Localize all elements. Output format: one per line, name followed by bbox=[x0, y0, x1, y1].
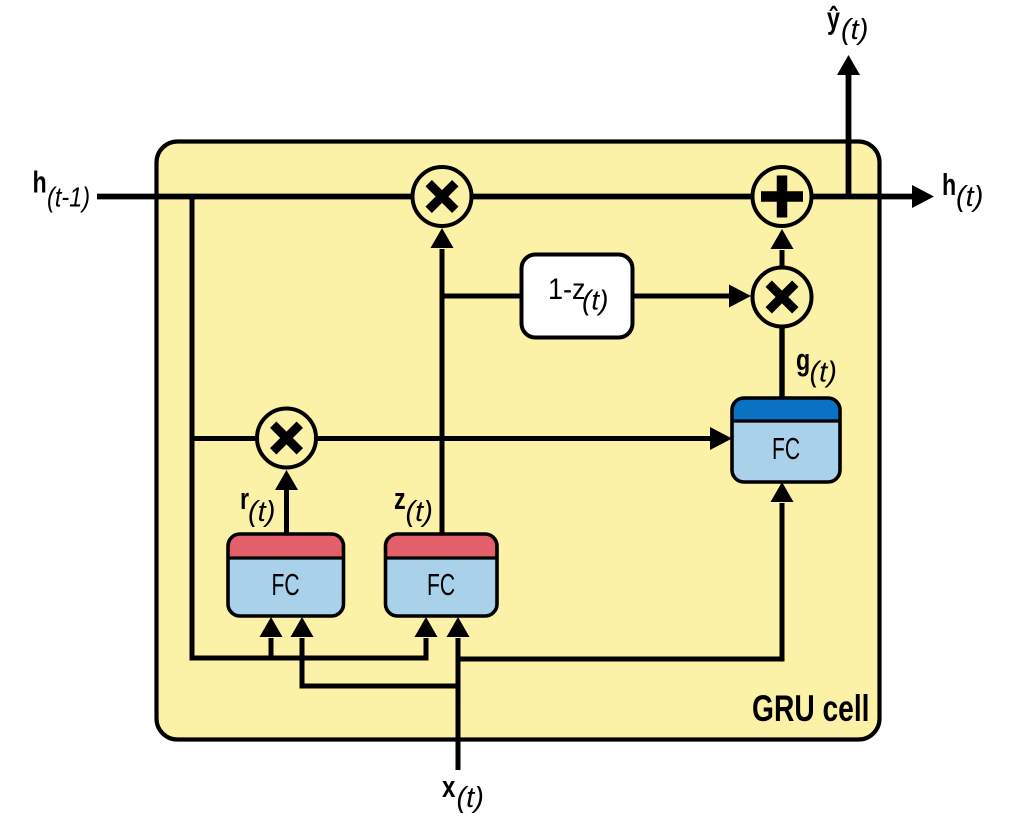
wire x branch to r FC bbox=[302, 638, 458, 686]
1-z box bbox=[522, 255, 633, 338]
label y-hat(t) bbox=[827, 0, 868, 46]
svg-text:z: z bbox=[394, 481, 406, 516]
FC box g body bbox=[732, 398, 840, 482]
label FC g bbox=[772, 431, 800, 466]
label GRU cell bbox=[752, 687, 869, 729]
FC box g blue header bbox=[732, 398, 840, 421]
svg-text:ŷ: ŷ bbox=[827, 0, 841, 35]
label FC z bbox=[427, 567, 455, 602]
svg-text:(t-1): (t-1) bbox=[47, 183, 90, 213]
svg-text:h: h bbox=[942, 167, 956, 202]
multiply op 2 X glyph bbox=[769, 284, 796, 311]
arrowhead h into r FC bbox=[260, 617, 283, 637]
label z(t) bbox=[394, 481, 433, 528]
multiply op 1 X glyph bbox=[429, 183, 456, 210]
svg-text:g: g bbox=[796, 342, 810, 377]
label x(t) bbox=[442, 769, 484, 814]
multiply op 2 circle bbox=[753, 268, 812, 327]
arrowhead 1-z into multiply op 2 bbox=[729, 285, 751, 308]
svg-text:(t): (t) bbox=[956, 181, 983, 213]
svg-text:x: x bbox=[442, 769, 456, 804]
svg-text:(t): (t) bbox=[457, 782, 484, 814]
wire x(t) main vertical bbox=[456, 638, 461, 770]
arrowhead h(t) output bbox=[912, 185, 934, 208]
FC box z body bbox=[386, 534, 498, 616]
arrowhead x into z FC bbox=[447, 617, 470, 637]
wire y-hat vertical bbox=[846, 73, 852, 197]
arrowhead into g FC left bbox=[710, 427, 732, 450]
svg-text:(t): (t) bbox=[582, 285, 608, 316]
FC box z red header bbox=[386, 534, 498, 558]
multiply op 1 circle bbox=[413, 167, 472, 226]
add op plus glyph bbox=[761, 176, 803, 218]
wire branch into 1-z box bbox=[442, 294, 525, 299]
svg-text:FC: FC bbox=[772, 431, 800, 466]
label r(t) bbox=[240, 481, 275, 528]
FC box z divider bbox=[386, 556, 498, 559]
arrowhead y-hat output bbox=[837, 55, 860, 75]
wire h(t-1) top horizontal bbox=[97, 194, 916, 200]
wire r product to g FC bbox=[192, 436, 711, 441]
arrowhead x into r FC bbox=[291, 617, 314, 637]
FC box g border bbox=[732, 398, 840, 482]
label FC r bbox=[271, 567, 299, 602]
arrowhead h into z FC bbox=[415, 617, 438, 637]
svg-text:FC: FC bbox=[271, 567, 299, 602]
svg-text:1-z: 1-z bbox=[548, 273, 585, 307]
FC box r red header bbox=[228, 534, 344, 558]
wire z FC up to multiply op 1 bbox=[440, 249, 445, 534]
arrowhead r into multiply op 3 bbox=[275, 470, 298, 490]
wire x branch to g FC bbox=[458, 503, 782, 659]
label h(t) bbox=[942, 167, 983, 213]
svg-text:(t): (t) bbox=[810, 357, 837, 389]
arrowhead into add op bbox=[771, 229, 794, 249]
FC box r divider bbox=[228, 556, 344, 559]
add op circle bbox=[753, 167, 812, 226]
svg-text:h: h bbox=[33, 164, 47, 199]
wire h(t-1) left drop and feed to z FC bbox=[192, 194, 426, 658]
multiply op 3 circle bbox=[257, 409, 316, 468]
GRU cell container bbox=[157, 142, 880, 740]
wire h stub into r FC bbox=[269, 638, 274, 658]
FC box r body bbox=[228, 534, 344, 616]
svg-text:FC: FC bbox=[427, 567, 455, 602]
FC box r border bbox=[228, 534, 344, 616]
svg-text:(t): (t) bbox=[248, 496, 275, 528]
FC box z border bbox=[386, 534, 498, 616]
wire r FC up to multiply op 3 bbox=[284, 490, 289, 534]
label h(t-1) bbox=[33, 164, 91, 213]
svg-text:(t): (t) bbox=[841, 14, 868, 46]
FC box g divider bbox=[732, 419, 840, 422]
multiply op 3 X glyph bbox=[273, 425, 300, 452]
label g(t) bbox=[796, 342, 837, 389]
arrowhead z into multiply op 1 bbox=[431, 228, 454, 248]
svg-text:(t): (t) bbox=[406, 496, 433, 528]
wire g FC up to multiply op 2 bbox=[779, 328, 784, 400]
wire 1-z box to multiply op 2 bbox=[630, 294, 730, 299]
svg-text:GRU cell: GRU cell bbox=[752, 687, 869, 729]
label 1-z(t) bbox=[548, 273, 608, 316]
wire multiply op 2 up to add op bbox=[780, 250, 785, 266]
arrowhead x into g FC bbox=[771, 482, 794, 502]
